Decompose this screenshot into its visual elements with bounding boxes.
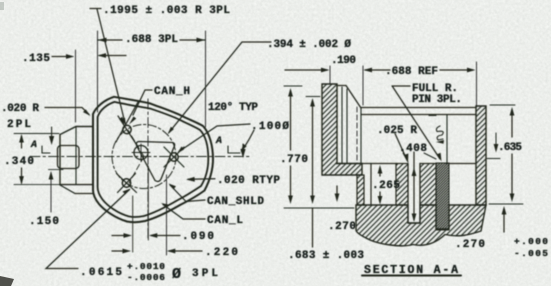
dim .770 line+arrows: [290, 91, 292, 201]
extension lines below cam: [133, 166, 167, 255]
leader .1995 arrowhead: [121, 118, 126, 126]
pin strip dense hatched: [436, 163, 449, 230]
center circle cross: [132, 144, 150, 161]
section flag A left arrowhead: [49, 136, 54, 145]
dim .688 3PL extension lines: [98, 31, 206, 127]
dim .190 extension line: [329, 66, 331, 84]
seat line: [336, 163, 397, 165]
pin P3 X arms: [117, 174, 137, 193]
pin P1 arrowheads: [119, 117, 136, 126]
svg-text:.270: .270: [328, 221, 356, 233]
top slope profile: [338, 86, 361, 109]
section flag A right arrowhead: [240, 149, 245, 158]
pin P3 bottom circle: [122, 179, 130, 187]
dim .135 arrows: [52, 56, 126, 57]
cam outline inner (left view): [98, 102, 209, 217]
svg-text:.150: .150: [29, 216, 59, 228]
dim .340 extension lines: [14, 134, 93, 185]
slot bore edges: [408, 164, 420, 224]
svg-text:.0615: .0615: [80, 267, 122, 279]
dim .340 line+arrows: [21, 136, 23, 183]
section flag A left: [42, 127, 52, 153]
svg-text:.394 ± .002 Ø: .394 ± .002 Ø: [267, 39, 351, 51]
svg-text:SECTION A-A: SECTION A-A: [364, 264, 458, 277]
connector tab boss (left view): [60, 127, 93, 185]
svg-text:.408: .408: [399, 143, 427, 155]
svg-text:.020 R: .020 R: [1, 103, 39, 115]
dim .408 side leaders: [403, 153, 436, 162]
center circle: [134, 146, 148, 160]
pin P2 X arms: [164, 147, 184, 167]
bottom block hatched: [356, 205, 486, 246]
pin P1 X arms: [116, 102, 138, 147]
hidden line (dashed): [356, 107, 358, 164]
svg-text:.265: .265: [372, 180, 400, 192]
svg-text:+.000: +.000: [514, 236, 548, 247]
tube right wall hatched: [420, 164, 436, 206]
dim .190 line+arrow: [285, 69, 327, 71]
vertical centerline: [147, 99, 149, 238]
dim .270 right line+arrow: [503, 209, 505, 232]
pin squiggle arrowhead: [436, 140, 444, 144]
svg-text:.270: .270: [455, 239, 485, 251]
svg-text:CAN_SHLD: CAN_SHLD: [207, 196, 264, 208]
leader CAN_L arrowhead: [161, 203, 169, 208]
svg-text:.683 ± .003: .683 ± .003: [288, 250, 364, 262]
svg-text:.135: .135: [22, 53, 50, 65]
leader .0615 arrowhead: [123, 189, 131, 195]
leader .1995 R: [90, 9, 125, 124]
svg-text:3PL: 3PL: [192, 268, 218, 280]
section flag A right: [228, 144, 243, 153]
tab bottom chamfer line: [60, 185, 93, 194]
svg-text:CAN_H: CAN_H: [154, 86, 190, 98]
pin P2 right circle: [170, 153, 178, 161]
horizontal centerline: [30, 156, 252, 158]
svg-text:.688 3PL: .688 3PL: [125, 34, 178, 46]
svg-text:.688 REF: .688 REF: [385, 66, 438, 78]
dim .770 ticks: [284, 86, 354, 208]
body left inner vertical: [360, 108, 362, 164]
svg-text:.1995 ± .003 R 3PL: .1995 ± .003 R 3PL: [103, 5, 230, 17]
svg-text:CAN_L: CAN_L: [207, 215, 243, 227]
leader .025 R: [395, 134, 407, 161]
svg-text:120° TYP: 120° TYP: [208, 102, 258, 114]
scan artifact left-edge smudge: [0, 2, 4, 10]
svg-text:.635: .635: [498, 142, 522, 154]
angle arc 120 TYP: [242, 130, 254, 150]
radial line to bottom pin: [129, 157, 144, 184]
leader CAN_L: [163, 205, 205, 220]
pin pitch circle (hidden): [112, 125, 176, 189]
leader FULL R PIN 3PL: [392, 86, 440, 159]
tab face edge line: [75, 127, 77, 185]
right bar hatched: [476, 106, 486, 205]
dim .635 ticks: [489, 105, 523, 204]
dim .220 arrows: [112, 250, 202, 252]
svg-text:.025 R: .025 R: [377, 125, 417, 137]
leader .0615 dia 3PL: [46, 190, 130, 269]
svg-text:.770: .770: [280, 154, 308, 166]
dim .688 REF extension lines: [363, 62, 477, 107]
svg-text:A: A: [215, 136, 222, 147]
svg-text:.340: .340: [4, 156, 34, 168]
leader .100 dia: [179, 124, 250, 152]
pin P1 top circle: [123, 125, 131, 133]
cam outline outer (left view): [93, 97, 213, 222]
leader .394 dia: [169, 42, 271, 133]
dim .688 REF line+arrows: [365, 69, 473, 71]
tab inner slot rounded rect: [58, 146, 80, 169]
leader CAN_H: [133, 90, 152, 115]
svg-text:+.0010: +.0010: [127, 261, 165, 272]
pin full-R squiggle detail: [429, 116, 443, 141]
wall strip hatched: [357, 175, 364, 205]
leader .100 arrowhead: [177, 147, 184, 154]
svg-text:A: A: [30, 140, 37, 151]
angle arc arrowhead: [241, 144, 247, 152]
svg-text:-.0006: -.0006: [127, 272, 165, 283]
svg-text:.020 RTYP: .020 RTYP: [217, 175, 280, 187]
step vertical: [370, 164, 372, 206]
pin upper edge line: [446, 115, 448, 163]
dim .090 arrows: [112, 235, 180, 237]
dim .150 tick+arrow+line: [49, 170, 64, 212]
leader .020 R: [45, 108, 89, 115]
inner cam hole triangle: [136, 142, 174, 182]
dim .688 3PL line+arrows: [98, 39, 206, 41]
dim .265 line+arrows: [379, 168, 381, 202]
top plate lines: [361, 108, 476, 115]
radial line to top pin: [128, 130, 144, 157]
svg-text:.090: .090: [182, 231, 214, 243]
flange inner verticals: [342, 87, 347, 164]
leader .020 R arrowhead: [83, 109, 91, 116]
leader CAN_SHLD: [170, 185, 205, 202]
tube left wall hatched: [396, 164, 408, 206]
svg-text:2PL: 2PL: [7, 119, 31, 131]
scan artifact bottom-left: [0, 276, 14, 286]
flange bar + foot hatched: [322, 84, 362, 175]
cavity floor right of pin: [446, 163, 476, 165]
svg-text:-.005: -.005: [514, 248, 548, 259]
dim .408 line+arrows: [413, 152, 415, 220]
dim .135 extension line: [75, 50, 77, 122]
leader CAN_SHLD arrowhead: [169, 184, 177, 190]
SECTION A-A underline: [362, 275, 461, 277]
leader .020 R TYP: [188, 178, 215, 181]
svg-text:.190: .190: [331, 55, 356, 67]
svg-text:PIN 3PL.: PIN 3PL.: [412, 94, 462, 106]
svg-text:.100Ø: .100Ø: [251, 121, 289, 133]
svg-text:Ø: Ø: [172, 266, 181, 283]
small datum line right of bar: [487, 133, 500, 159]
leader .394 arrowhead: [168, 127, 174, 135]
dim .270 left arrow: [336, 186, 338, 199]
dim .635 line+arrows: [511, 110, 513, 198]
dim .683 tick: [306, 96, 320, 98]
dim .683 line+arrows: [312, 101, 314, 247]
